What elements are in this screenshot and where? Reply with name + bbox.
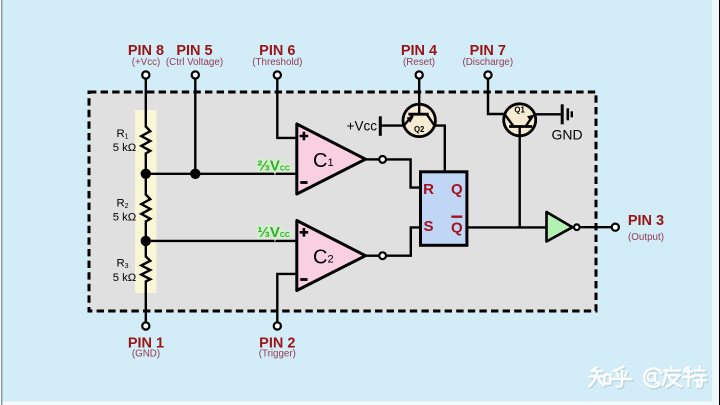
pin 1 terminal <box>128 322 164 359</box>
svg-text:(Output): (Output) <box>628 232 664 243</box>
svg-text:GND: GND <box>551 127 582 143</box>
op-amp comparator C1 <box>297 124 366 194</box>
ground symbol <box>551 104 582 142</box>
svg-text:PIN 3: PIN 3 <box>628 213 664 229</box>
resistor R1 <box>113 127 151 154</box>
svg-text:(+Vcc): (+Vcc) <box>132 57 161 68</box>
svg-text:(Discharge): (Discharge) <box>462 57 513 68</box>
wire Q1 emitter to GND <box>535 113 561 115</box>
svg-text:5 kΩ: 5 kΩ <box>113 212 137 224</box>
svg-text:(Ctrl Voltage): (Ctrl Voltage) <box>166 57 223 68</box>
+Vcc terminal <box>347 116 404 136</box>
resistor R3 <box>113 257 151 285</box>
pin 5 terminal <box>166 43 223 79</box>
wire C1 bubble to flip-flop R input <box>386 159 421 187</box>
pin 7 terminal <box>462 43 513 79</box>
wire divider bottom to PIN1 <box>145 281 147 323</box>
wire buffer to PIN3 <box>580 226 612 228</box>
svg-text:(Trigger): (Trigger) <box>259 349 296 360</box>
svg-text:+Vcc: +Vcc <box>347 119 378 134</box>
wire PIN4 to Q2 base <box>418 79 420 115</box>
C1 output bubble <box>379 156 386 163</box>
wire 1/3 Vcc node to C2 non-inverting input <box>146 240 297 242</box>
wire PIN5 down to control node <box>194 79 196 174</box>
pin 2 terminal <box>259 322 296 359</box>
output buffer (inverter) <box>547 212 580 242</box>
svg-text:R: R <box>423 181 434 198</box>
watermark zhihu @pite <box>590 367 708 389</box>
svg-text:S: S <box>423 218 433 235</box>
svg-text:Q2: Q2 <box>414 125 425 134</box>
wire 2/3 Vcc node to C1 inverting input <box>146 173 297 175</box>
op-amp comparator C2 <box>297 221 366 291</box>
svg-text:(GND): (GND) <box>132 349 160 360</box>
wire flip-flop Qbar output to output buffer <box>467 226 547 228</box>
node junction R2-R3 <box>141 236 151 246</box>
svg-text:5 kΩ: 5 kΩ <box>113 272 137 284</box>
wire divider segment R2-R3 <box>145 221 147 258</box>
transistor Q2 (PNP reset) <box>403 104 435 136</box>
node junction control voltage <box>190 169 200 179</box>
svg-text:Q: Q <box>451 181 463 198</box>
svg-text:Q1: Q1 <box>514 105 525 114</box>
IC body (dashed box) <box>89 92 596 311</box>
pin 6 terminal <box>252 43 302 79</box>
svg-text:5 kΩ: 5 kΩ <box>113 142 137 154</box>
wire Q2 collector to flip-flop top <box>434 126 445 172</box>
C2 output bubble <box>379 252 386 259</box>
transistor Q1 (NPN discharge) <box>504 104 536 136</box>
pin 3 terminal <box>612 213 664 243</box>
edge artifacts <box>0 402 720 405</box>
flip-flop U1 (SR latch) <box>421 172 467 246</box>
wire C2 output to bubble <box>366 254 380 256</box>
wire divider segment R1-R2 <box>145 153 147 196</box>
wire C2 bubble to flip-flop S input <box>386 227 421 255</box>
wire PIN8 to divider top <box>145 79 147 128</box>
pin 4 terminal <box>401 43 437 79</box>
wire C1 output to bubble <box>366 158 380 160</box>
svg-text:(Threshold): (Threshold) <box>252 57 302 68</box>
svg-text:Q: Q <box>451 219 463 236</box>
wire PIN2 to C2 - input <box>277 274 297 323</box>
node junction R1-R2 <box>141 169 151 179</box>
wire PIN6 to C1 + input <box>277 79 297 138</box>
wire PIN7 to Q1 collector <box>488 79 505 115</box>
resistor R2 <box>113 195 151 224</box>
voltage divider highlight band <box>135 110 157 293</box>
svg-text:(Reset): (Reset) <box>403 57 435 68</box>
wire Q1 base down to output line <box>519 127 521 227</box>
pin 8 terminal <box>128 43 164 79</box>
